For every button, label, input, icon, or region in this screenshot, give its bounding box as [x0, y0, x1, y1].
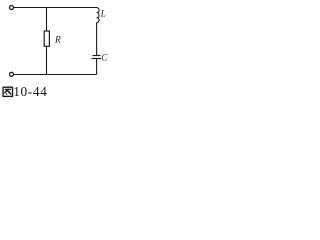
- svg-text:L: L: [100, 9, 106, 19]
- svg-text:R: R: [54, 35, 61, 45]
- svg-text:C: C: [101, 52, 108, 62]
- svg-text:10-44: 10-44: [13, 84, 47, 99]
